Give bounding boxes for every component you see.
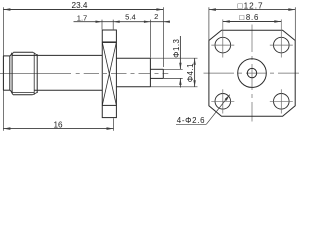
barrel top line (runs through nut) [12, 54, 102, 56]
dimension 23.4 line [3, 9, 163, 11]
flange cross X [102, 42, 116, 105]
nut inner bottom line [12, 92, 34, 94]
extension line pin bottom right [163, 77, 182, 79]
extension line body right x=150.4 [149, 20, 151, 58]
center inner circle [247, 68, 256, 77]
extension line 16 right x=113.5 [113, 118, 115, 131]
leader line 4-phi2.6 [176, 123, 206, 125]
svg-text:5.4: 5.4 [125, 13, 136, 22]
nut top-right chamfer [33, 52, 37, 55]
nut bottom edge [13, 94, 33, 96]
extension line hole left centerline up [222, 19, 224, 57]
extension line 1.7 right x=113.2 [112, 20, 114, 30]
nut right edge [36, 54, 38, 93]
nut left edge [11, 54, 13, 94]
svg-text:4-Φ2.6: 4-Φ2.6 [177, 116, 205, 125]
extension line right of 23.4 (x=163.4) [162, 7, 164, 67]
nut top-left chamfer [12, 52, 13, 54]
extension line flange front x=102 [101, 20, 103, 30]
extension line body bottom right [150, 86, 197, 88]
front view horizontal centerline [204, 72, 300, 74]
flange square with chamfered corners [209, 30, 295, 116]
arrow 5.4 left (tip at 113.2 pointing left) [113, 21, 120, 23]
mounting hole top-left [211, 37, 234, 53]
nut hex edge line [33, 53, 35, 95]
svg-text:□8.6: □8.6 [239, 13, 259, 22]
dimension 23.4 right arrow [156, 8, 163, 11]
svg-text:1.7: 1.7 [77, 14, 88, 23]
dimension 12.7 line [209, 9, 295, 11]
dimension phi4.1 line [194, 58, 196, 87]
svg-text:23.4: 23.4 [72, 1, 88, 10]
extension line left (x=3.4) [2, 7, 4, 131]
extension line body top right [150, 57, 197, 59]
dimension phi1.3 line [179, 36, 181, 69]
dimension row2 line segments y=22.1 [74, 21, 151, 23]
svg-text:□12.7: □12.7 [238, 1, 264, 10]
svg-text:Φ4.1: Φ4.1 [186, 63, 195, 82]
extension line square right [294, 7, 296, 40]
fillet bottom to nut [10, 90, 12, 93]
extension line square left [208, 7, 210, 40]
svg-text:Φ1.3: Φ1.3 [172, 38, 181, 57]
svg-text:2: 2 [154, 12, 158, 21]
barrel bottom line [34, 89, 102, 91]
mounting hole top-right [270, 37, 293, 53]
dimension 16 line [3, 128, 113, 130]
dimension 8.6 line [223, 21, 281, 23]
contact pin [150, 69, 163, 78]
flange hole line bottom [102, 104, 116, 106]
mounting hole bottom-right [270, 89, 293, 113]
mounting hole bottom-left [211, 89, 234, 113]
svg-text:16: 16 [53, 120, 63, 129]
flange side view [102, 30, 116, 118]
arrow 2 right-outside (tip at 163.4 pointing left) [163, 21, 170, 23]
extension line hole right centerline up [280, 19, 282, 57]
fillet top to nut [10, 53, 12, 56]
connector front face small rect [3, 53, 12, 93]
centerline side view [0, 73, 168, 75]
nut bottom-left chamfer [11, 93, 14, 95]
dimension 23.4 left arrow [3, 8, 10, 11]
hex coupling nut [12, 52, 37, 95]
front view vertical centerline [251, 25, 253, 122]
barrel [12, 55, 102, 90]
nut bottom-right chamfer [33, 93, 38, 95]
extension line pin top right [163, 68, 182, 70]
nut top edge [13, 51, 33, 53]
center outer circle [238, 59, 267, 88]
rear body [116, 58, 150, 87]
arrow 5.4 right (tip at 150.4 pointing right) [144, 21, 151, 23]
arrow 1.7 pointing right at flange front [96, 21, 103, 23]
flange hole line top [102, 41, 116, 43]
